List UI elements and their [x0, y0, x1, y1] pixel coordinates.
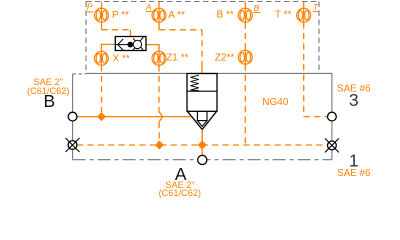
- wire: logic valve bottom to A node: [201, 130, 203, 156]
- underline T: [313, 10, 318, 12]
- top assembly boundary (dashed gray rect): [86, 2, 319, 74]
- poppet tip triangle: [197, 121, 207, 127]
- wire: T to port 3 node (dashed): [304, 116, 328, 118]
- poppet stem: [196, 111, 198, 120]
- svg-text:T **: T **: [275, 10, 292, 21]
- svg-text:B: B: [43, 91, 55, 111]
- underline B: [253, 11, 260, 13]
- wire: Z2 down (dashed): [244, 64, 246, 144]
- port X symbol: [94, 51, 108, 65]
- underline P: [87, 11, 94, 13]
- svg-text:Z1 **: Z1 **: [166, 52, 188, 63]
- wire: P corner to check valve (dashed): [102, 29, 131, 31]
- wire: bottom drain line (dashed): [77, 144, 327, 146]
- port B symbol: [238, 8, 252, 22]
- wire: check valve to Z1: [146, 45, 159, 52]
- wire: X down to junction (dashed): [101, 65, 103, 112]
- svg-text:A: A: [175, 164, 187, 184]
- wire: T stub above port: [303, 2, 305, 8]
- svg-text:T: T: [313, 2, 319, 12]
- wire: A corner to valve column (dashed): [159, 29, 202, 31]
- wire: P down to corner: [101, 22, 103, 29]
- wire: P stub above port: [101, 2, 103, 8]
- wire: T down (dashed): [303, 23, 305, 117]
- underline A: [146, 10, 153, 12]
- svg-text:A **: A **: [168, 10, 185, 21]
- wire: Z1 jump down to junction (dashed): [158, 122, 160, 141]
- wire: drop into check valve top: [129, 30, 131, 37]
- port Z1 symbol: [152, 51, 166, 65]
- arrow head: [118, 39, 124, 50]
- port T symbol: [297, 8, 311, 22]
- junction diamond at P/B-line: [97, 112, 106, 121]
- svg-text:P: P: [87, 2, 93, 12]
- centerline (gray dash-dot): [73, 159, 332, 161]
- lower body boundary (solid gray): [73, 73, 332, 160]
- wire: B work line to logic valve: [77, 116, 190, 118]
- SAE labels: [27, 77, 371, 198]
- node 3 port circle: [328, 112, 337, 121]
- port Z2 symbol: [238, 50, 252, 64]
- logic element (pilot-to-close cartridge): [187, 74, 217, 130]
- junction diamond at Z1/drain: [155, 141, 164, 150]
- svg-text:A: A: [145, 2, 152, 12]
- svg-text:3: 3: [349, 90, 359, 110]
- wire: B stub above port: [244, 2, 246, 8]
- seat cross: [133, 37, 143, 50]
- wire: A pilot stub at valve top: [201, 67, 203, 74]
- wire: A down to corner: [158, 23, 160, 30]
- port P symbol: [95, 8, 109, 22]
- wire: A stub above port: [158, 2, 160, 8]
- svg-text:P **: P **: [112, 10, 129, 21]
- wire: left bracket dashed corner: [73, 73, 86, 75]
- check valve CV1: [115, 37, 146, 51]
- poppet seat V: [187, 111, 202, 129]
- ball: [127, 42, 133, 48]
- wire: body top edge: [86, 72, 332, 74]
- wire: Z1 down to jump (dashed): [158, 65, 160, 111]
- svg-text:1: 1: [349, 150, 359, 170]
- port A symbol: [152, 8, 166, 22]
- svg-text:Z2**: Z2**: [215, 52, 235, 63]
- svg-text:NG40: NG40: [262, 97, 289, 108]
- node B port circle: [68, 112, 77, 121]
- wire: left vertical body edge: [72, 74, 74, 160]
- wire: X up and into check valve: [101, 44, 115, 51]
- spring: [191, 75, 199, 90]
- plugged port left (circle with X): [66, 138, 80, 152]
- italic port name P: [87, 2, 319, 13]
- junction diamond at A/drain: [198, 141, 207, 150]
- flow line: [115, 44, 127, 46]
- wire: A pilot down to logic valve top (dashed): [201, 30, 203, 68]
- plugged port right (circle with X): [325, 138, 339, 152]
- svg-text:X **: X **: [113, 53, 130, 64]
- svg-text:B **: B **: [217, 10, 234, 21]
- divider: [187, 90, 217, 92]
- wire: B down to Z2 (dashed): [244, 23, 246, 51]
- node A port circle: [198, 155, 207, 164]
- wire: jump arc over B line: [159, 112, 163, 122]
- poppet circle: [133, 40, 141, 48]
- wire: right vertical body edge: [331, 73, 333, 160]
- orange wires: [77, 2, 327, 155]
- big port letters: [43, 90, 358, 184]
- labels: [112, 10, 291, 108]
- svg-text:(C61/C62): (C61/C62): [159, 188, 201, 198]
- svg-text:B: B: [254, 3, 260, 13]
